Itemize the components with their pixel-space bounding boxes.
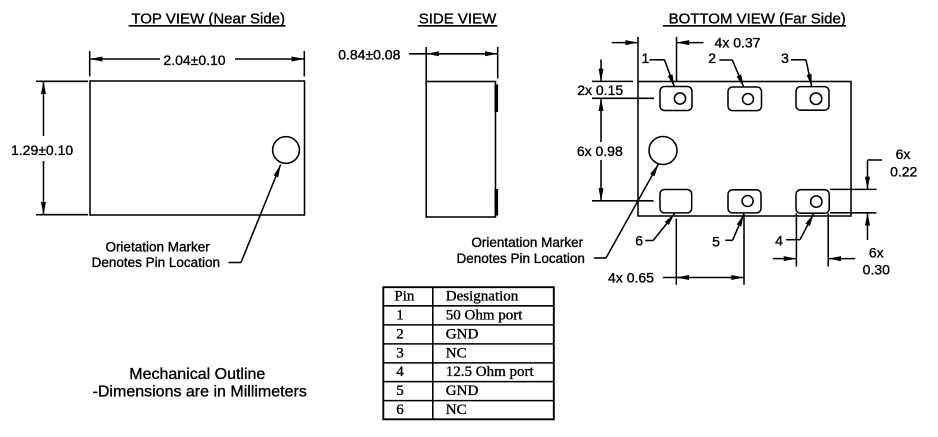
pad 3	[796, 87, 829, 111]
svg-text:1: 1	[396, 307, 404, 323]
svg-text:4: 4	[775, 232, 783, 248]
svg-text:2: 2	[708, 50, 716, 66]
dimension 0.84±0.08	[338, 47, 497, 82]
svg-text:4x 0.37: 4x 0.37	[715, 35, 761, 51]
svg-text:1.29±0.10: 1.29±0.10	[11, 142, 73, 158]
svg-text:Orientation Marker: Orientation Marker	[471, 235, 583, 250]
pin 1 label	[642, 50, 675, 87]
dimension 6x 0.98	[577, 98, 654, 201]
svg-text:5: 5	[396, 383, 404, 399]
svg-text:4x 0.65: 4x 0.65	[608, 270, 654, 286]
pad 1	[660, 87, 692, 111]
pin 6 label	[635, 214, 674, 249]
svg-text:0.30: 0.30	[863, 261, 890, 277]
dimension 2.04±0.10	[90, 51, 305, 77]
svg-text:3: 3	[781, 50, 789, 66]
svg-text:NC: NC	[446, 345, 467, 361]
top view orientation marker circle	[273, 137, 300, 164]
svg-text:6: 6	[635, 233, 643, 249]
pad 2	[728, 87, 762, 111]
dimension 4x 0.65	[608, 214, 744, 286]
dimension 2x 0.15	[577, 60, 654, 99]
svg-text:2: 2	[396, 326, 404, 342]
side view orientation label	[457, 164, 659, 266]
pad 4	[796, 190, 829, 214]
dimension 4x 0.37	[612, 35, 761, 82]
svg-text:GND: GND	[446, 326, 479, 342]
pad 6	[660, 190, 692, 213]
svg-text:-Dimensions are in Millimeters: -Dimensions are in Millimeters	[93, 383, 307, 400]
svg-text:2.04±0.10: 2.04±0.10	[163, 52, 225, 68]
svg-text:Denotes Pin Location: Denotes Pin Location	[92, 255, 220, 270]
svg-text:1: 1	[642, 50, 650, 66]
svg-text:6x 0.98: 6x 0.98	[577, 143, 623, 159]
pin 4 label	[775, 214, 813, 249]
svg-text:6x: 6x	[896, 146, 911, 162]
svg-text:2x 0.15: 2x 0.15	[577, 82, 623, 98]
svg-text:TOP VIEW (Near Side): TOP VIEW (Near Side)	[131, 11, 285, 28]
dimension 6x 0.22	[830, 146, 918, 240]
svg-text:3: 3	[396, 345, 404, 361]
svg-text:50 Ohm port: 50 Ohm port	[446, 307, 523, 323]
svg-text:12.5 Ohm port: 12.5 Ohm port	[446, 364, 535, 380]
svg-text:5: 5	[712, 234, 720, 250]
svg-text:Mechanical Outline: Mechanical Outline	[129, 366, 265, 383]
svg-text:Designation: Designation	[446, 288, 519, 304]
svg-text:SIDE VIEW: SIDE VIEW	[419, 11, 497, 28]
bottom view orientation marker circle	[649, 137, 677, 165]
leader to circle	[229, 262, 242, 264]
leader to bottom view circle	[594, 257, 606, 259]
svg-text:4: 4	[396, 364, 404, 380]
bottom view package body	[638, 82, 851, 217]
top view orientation label	[92, 165, 281, 271]
svg-text:Denotes Pin Location: Denotes Pin Location	[457, 251, 585, 266]
svg-text:6: 6	[396, 402, 404, 418]
side view pad bottom	[495, 189, 499, 216]
svg-text:0.22: 0.22	[890, 164, 917, 180]
pin 5 label	[712, 214, 744, 250]
svg-text:NC: NC	[446, 402, 467, 418]
dimension 6x 0.30	[773, 213, 890, 277]
dimension 1.29±0.10	[11, 81, 88, 214]
side view package body	[426, 82, 495, 218]
svg-text:BOTTOM VIEW (Far Side): BOTTOM VIEW (Far Side)	[669, 11, 846, 28]
pin 3 label	[781, 50, 812, 87]
svg-text:0.84±0.08: 0.84±0.08	[338, 47, 400, 63]
pin 2 label	[708, 50, 743, 87]
svg-text:6x: 6x	[869, 245, 884, 261]
svg-text:Pin: Pin	[394, 288, 415, 304]
pin designation table	[383, 287, 554, 419]
top view package body	[90, 81, 305, 215]
pad 5	[728, 190, 761, 213]
side view pad top	[495, 85, 499, 113]
svg-text:GND: GND	[446, 383, 479, 399]
svg-text:Orietation Marker: Orietation Marker	[105, 240, 210, 255]
note text	[93, 366, 307, 400]
